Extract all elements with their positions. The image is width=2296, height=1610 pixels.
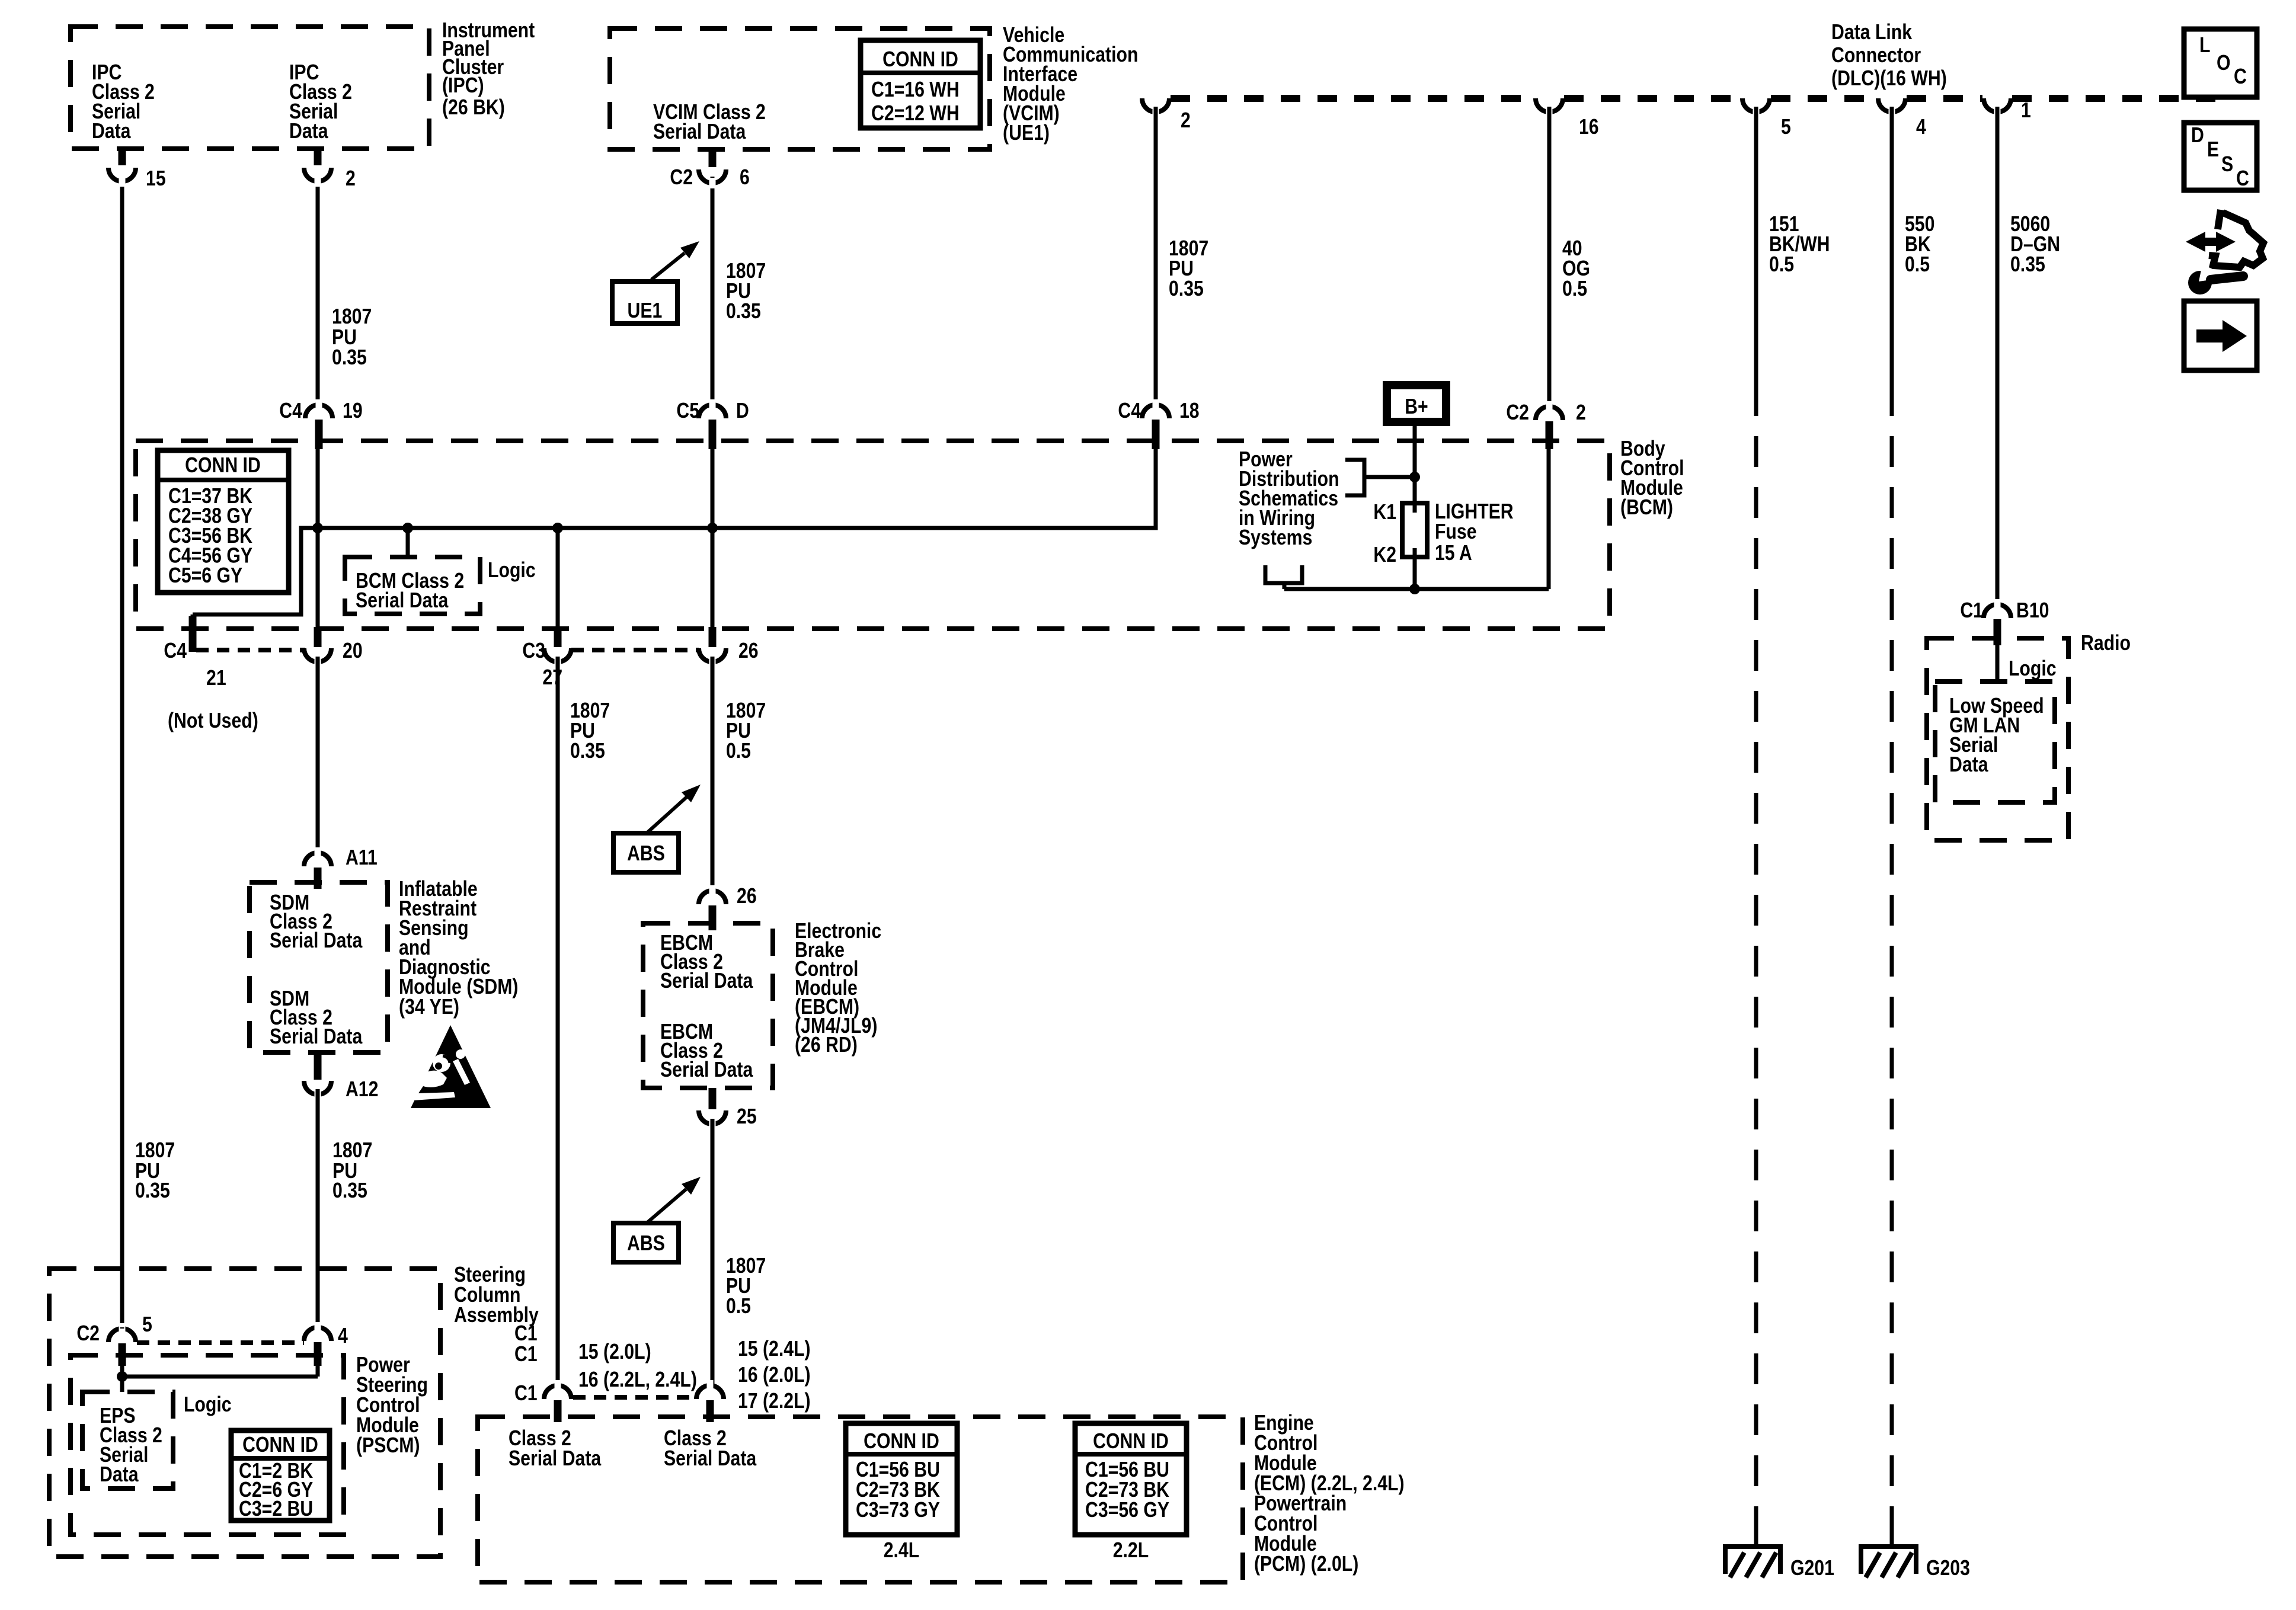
svg-text:Logic: Logic: [184, 1393, 232, 1417]
svg-text:(IPC): (IPC): [442, 74, 484, 98]
svg-text:C2: C2: [76, 1322, 100, 1346]
svg-text:C2: C2: [670, 166, 693, 190]
svg-text:2.4L: 2.4L: [884, 1539, 920, 1563]
svg-text:A11: A11: [346, 846, 378, 870]
svg-text:(PCM) (2.0L): (PCM) (2.0L): [1254, 1553, 1358, 1576]
svg-text:16 (2.0L): 16 (2.0L): [738, 1363, 811, 1387]
svg-text:Connector: Connector: [1831, 44, 1921, 68]
svg-text:(34 YE): (34 YE): [399, 996, 459, 1019]
svg-text:16: 16: [1579, 116, 1599, 139]
svg-text:Serial Data: Serial Data: [664, 1447, 757, 1471]
svg-text:19: 19: [343, 399, 363, 423]
svg-text:0.5: 0.5: [1905, 253, 1930, 277]
svg-text:D: D: [736, 399, 749, 423]
svg-text:5: 5: [1781, 116, 1791, 139]
svg-text:C1: C1: [514, 1343, 538, 1366]
svg-text:25: 25: [737, 1105, 757, 1129]
svg-text:Serial Data: Serial Data: [356, 589, 449, 613]
svg-text:(26 RD): (26 RD): [795, 1033, 858, 1057]
svg-text:Data: Data: [289, 120, 328, 143]
svg-text:CONN ID: CONN ID: [864, 1430, 939, 1454]
svg-text:C1: C1: [514, 1382, 538, 1406]
svg-text:G201: G201: [1790, 1557, 1834, 1580]
svg-text:2.2L: 2.2L: [1113, 1539, 1149, 1563]
svg-text:0.35: 0.35: [570, 740, 605, 763]
svg-text:15: 15: [146, 167, 166, 191]
svg-text:C4: C4: [1118, 399, 1141, 423]
svg-text:Serial Data: Serial Data: [653, 120, 746, 144]
svg-text:(DLC)(16 WH): (DLC)(16 WH): [1831, 67, 1947, 91]
svg-text:Serial Data: Serial Data: [660, 1058, 753, 1082]
svg-text:0.5: 0.5: [1562, 277, 1587, 301]
svg-text:0.5: 0.5: [726, 740, 751, 763]
svg-text:C5: C5: [676, 399, 699, 423]
svg-text:C1: C1: [1960, 599, 1983, 623]
svg-text:C4: C4: [279, 399, 302, 423]
svg-text:15 A: 15 A: [1435, 542, 1472, 565]
svg-text:G203: G203: [1926, 1557, 1970, 1580]
svg-text:(UE1): (UE1): [1003, 121, 1050, 145]
svg-text:17 (2.2L): 17 (2.2L): [738, 1390, 811, 1413]
svg-text:C1=16 WH: C1=16 WH: [871, 78, 960, 102]
svg-text:C: C: [2234, 65, 2247, 89]
svg-text:0.35: 0.35: [2010, 253, 2045, 277]
svg-text:0.35: 0.35: [332, 1179, 367, 1203]
svg-text:(Not Used): (Not Used): [168, 709, 258, 733]
svg-text:ABS: ABS: [627, 1232, 665, 1256]
svg-text:Data Link: Data Link: [1831, 21, 1913, 44]
svg-text:Data: Data: [92, 120, 131, 143]
svg-text:Logic: Logic: [2009, 657, 2057, 681]
svg-text:CONN ID: CONN ID: [242, 1433, 318, 1457]
svg-text:0.35: 0.35: [135, 1179, 170, 1203]
svg-text:C2=12 WH: C2=12 WH: [871, 102, 960, 126]
svg-text:C4: C4: [164, 639, 187, 663]
svg-text:5: 5: [142, 1313, 152, 1337]
svg-text:(PSCM): (PSCM): [356, 1434, 420, 1458]
svg-text:Serial Data: Serial Data: [270, 1025, 363, 1049]
svg-text:Data: Data: [100, 1463, 139, 1487]
svg-text:B+: B+: [1405, 395, 1428, 419]
svg-text:ABS: ABS: [627, 842, 665, 866]
svg-text:26: 26: [738, 639, 759, 663]
svg-text:15 (2.4L): 15 (2.4L): [738, 1337, 811, 1361]
svg-text:0.5: 0.5: [1769, 253, 1794, 277]
svg-text:C3=73 GY: C3=73 GY: [856, 1499, 940, 1522]
svg-text:UE1: UE1: [628, 299, 663, 323]
svg-text:CONN ID: CONN ID: [1093, 1430, 1169, 1454]
svg-text:20: 20: [343, 639, 363, 663]
svg-text:2: 2: [346, 167, 356, 191]
svg-text:C3=2 BU: C3=2 BU: [239, 1497, 313, 1521]
svg-text:Radio: Radio: [2081, 632, 2131, 655]
svg-text:C: C: [2236, 167, 2249, 191]
svg-text:26: 26: [737, 885, 757, 908]
svg-text:C3=56 GY: C3=56 GY: [1085, 1499, 1169, 1522]
svg-text:Serial Data: Serial Data: [270, 929, 363, 953]
svg-text:18: 18: [1179, 399, 1200, 423]
svg-text:C3: C3: [522, 639, 545, 663]
svg-text:C5=6 GY: C5=6 GY: [168, 564, 242, 588]
svg-text:CONN ID: CONN ID: [882, 48, 958, 72]
svg-text:4: 4: [338, 1324, 348, 1348]
svg-text:2: 2: [1576, 401, 1586, 425]
svg-text:S: S: [2221, 153, 2233, 177]
svg-text:CONN ID: CONN ID: [185, 454, 261, 478]
svg-text:E: E: [2207, 138, 2219, 162]
svg-text:0.35: 0.35: [726, 300, 761, 324]
svg-text:C2: C2: [1506, 401, 1529, 425]
svg-text:4: 4: [1916, 116, 1926, 139]
svg-text:L: L: [2199, 34, 2210, 57]
svg-text:Serial Data: Serial Data: [509, 1447, 602, 1471]
svg-text:Data: Data: [1949, 753, 1988, 777]
svg-text:A12: A12: [346, 1078, 378, 1102]
svg-text:6: 6: [740, 166, 750, 190]
svg-text:27: 27: [542, 666, 562, 690]
svg-text:Logic: Logic: [488, 559, 536, 582]
svg-text:Fuse: Fuse: [1435, 520, 1477, 544]
svg-text:Serial Data: Serial Data: [660, 969, 753, 993]
svg-text:1: 1: [2021, 99, 2031, 123]
svg-text:K1: K1: [1373, 501, 1396, 524]
svg-text:(26 BK): (26 BK): [442, 96, 505, 120]
svg-text:(BCM): (BCM): [1620, 496, 1673, 520]
svg-text:0.5: 0.5: [726, 1295, 751, 1318]
svg-text:O: O: [2217, 52, 2231, 75]
svg-text:2: 2: [1181, 109, 1191, 133]
svg-text:16 (2.2L, 2.4L): 16 (2.2L, 2.4L): [578, 1368, 697, 1392]
svg-text:0.35: 0.35: [332, 346, 367, 370]
svg-text:K2: K2: [1373, 543, 1396, 567]
svg-text:0.35: 0.35: [1169, 277, 1204, 301]
svg-text:D: D: [2191, 124, 2204, 148]
svg-text:B10: B10: [2016, 599, 2049, 623]
svg-text:21: 21: [206, 667, 226, 690]
svg-text:15 (2.0L): 15 (2.0L): [578, 1340, 651, 1364]
svg-text:Systems: Systems: [1239, 526, 1312, 550]
